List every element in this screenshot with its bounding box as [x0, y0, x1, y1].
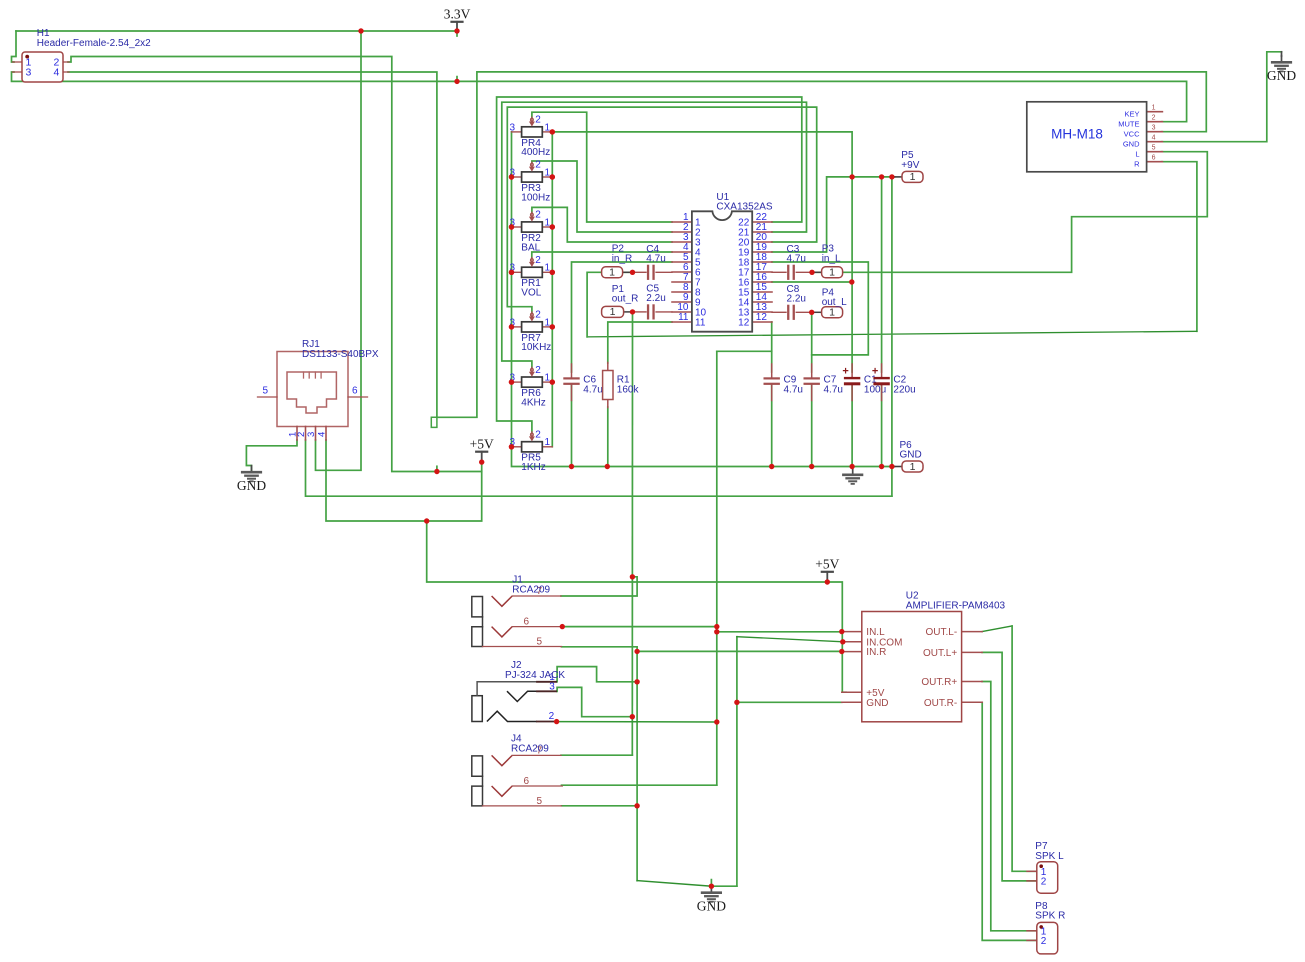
- junction at 711.4,886.2: [709, 884, 714, 889]
- svg-text:1: 1: [910, 171, 916, 183]
- wire net +5V: H1 pin2, RJ1 pin4, U2 +5V: [68, 57, 482, 472]
- svg-text:OUT.L-: OUT.L-: [926, 627, 958, 638]
- junction at 552.3,131.9: [550, 129, 555, 134]
- svg-text:in_L: in_L: [822, 253, 841, 264]
- connector J1 RCA209: [472, 597, 483, 617]
- capacitor C7 4.7u: [811, 364, 813, 378]
- junction at 457,31: [454, 28, 459, 33]
- capacitor C3 4.7u: [772, 271, 786, 273]
- svg-text:GND: GND: [900, 450, 922, 461]
- wire U1 pin19 to P5 +9V rail: [772, 177, 895, 252]
- svg-text:CXA1352AS: CXA1352AS: [716, 201, 772, 212]
- wire J1 pin6 to V3: [562, 626, 717, 628]
- junction at 716.8,722.0: [714, 719, 719, 724]
- svg-text:6: 6: [524, 776, 530, 787]
- svg-text:160k: 160k: [617, 384, 640, 395]
- svg-text:4: 4: [1152, 135, 1156, 142]
- potentiometer PR5 1KHz: [512, 446, 522, 448]
- svg-text:1: 1: [829, 307, 835, 319]
- svg-text:4: 4: [54, 67, 60, 79]
- junction at 511.5,382.1: [509, 379, 514, 384]
- wire IN.L link: [717, 631, 842, 633]
- svg-text:OUT.L+: OUT.L+: [923, 648, 957, 659]
- svg-text:2: 2: [1152, 115, 1156, 122]
- junction at 552.3,272.3: [550, 270, 555, 275]
- junction at 881.6,466.5: [879, 464, 884, 469]
- svg-text:GND: GND: [697, 898, 726, 913]
- svg-text:12: 12: [738, 318, 750, 329]
- wire GND bus at y=466.5 to P6: [512, 447, 895, 467]
- svg-text:2: 2: [535, 160, 541, 171]
- svg-text:400Hz: 400Hz: [521, 147, 550, 158]
- capacitor C4 4.7u: [633, 271, 647, 273]
- connector P2 in_R: [622, 271, 630, 273]
- wire V2b ground drop to bottom GND: [636, 651, 638, 880]
- wire U2 OUT.R+ to P8 pin1: [982, 682, 1037, 931]
- svg-text:OUT.R-: OUT.R-: [924, 698, 957, 709]
- connector J2 PJ-324 JACK: [472, 696, 482, 722]
- svg-text:4: 4: [317, 432, 328, 437]
- svg-text:VCC: VCC: [1124, 130, 1140, 139]
- junction at 632.3,716.7: [630, 714, 635, 719]
- svg-text:VOL: VOL: [521, 288, 541, 299]
- potentiometer PR6 4KHz: [512, 381, 522, 383]
- svg-text:MUTE: MUTE: [1118, 120, 1139, 129]
- svg-text:3.3V: 3.3V: [444, 7, 471, 22]
- svg-text:4KHz: 4KHz: [521, 397, 545, 408]
- ground (top right): [1281, 52, 1283, 56]
- svg-text:MH-M18: MH-M18: [1051, 127, 1103, 142]
- junction at 632.4,576.8: [630, 574, 635, 579]
- svg-text:6: 6: [352, 385, 358, 396]
- svg-text:5: 5: [262, 385, 268, 396]
- wire U1 pin16 to +9V vertical; C1 lead: [772, 281, 852, 283]
- capacitor C1 100u polarized: [851, 364, 853, 378]
- svg-text:GND: GND: [866, 698, 888, 709]
- wire U1 pin5 to C6: [572, 262, 673, 372]
- junction at 511.5,326.9: [509, 324, 514, 329]
- wire P4 node down to C7 top: [811, 312, 813, 372]
- svg-text:4.7u: 4.7u: [646, 254, 665, 265]
- svg-text:+5V: +5V: [470, 437, 494, 452]
- wire J4 pin7: [561, 754, 632, 756]
- svg-text:2: 2: [535, 310, 541, 321]
- wire net MUTE: H1 pin3 to MH-M18 pin2: [12, 72, 1187, 122]
- connector P3 in_L: [815, 271, 822, 273]
- junction at 632.5,311.9: [630, 309, 635, 314]
- capacitor C2 220u polarized: [881, 364, 883, 378]
- capacitor C9 4.7u: [771, 364, 773, 378]
- ground (RJ1): [251, 466, 253, 473]
- svg-text:2.2u: 2.2u: [787, 294, 806, 305]
- svg-text:PJ-324 JACK: PJ-324 JACK: [505, 670, 565, 681]
- potentiometer PR3 100Hz: [512, 176, 522, 178]
- wire U1 pin3 to PR2 pin2: [532, 207, 672, 242]
- svg-text:1: 1: [545, 122, 551, 133]
- header H1 Header-Female-2.54_2x2: [13, 61, 23, 63]
- wire C7 bottom to GND bus: [811, 384, 813, 467]
- svg-text:Header-Female-2.54_2x2: Header-Female-2.54_2x2: [37, 38, 151, 49]
- wire J1 pin7 to V1: [561, 577, 637, 596]
- wire J4 pin5 to V2b: [562, 805, 638, 807]
- junction at 716.8,631.8: [714, 629, 719, 634]
- svg-text:in_R: in_R: [612, 253, 633, 264]
- junction at 827.3,582.0: [825, 579, 830, 584]
- module MH-M18: [1147, 111, 1163, 113]
- svg-text:100Hz: 100Hz: [521, 192, 550, 203]
- svg-text:1: 1: [910, 461, 916, 473]
- junction at 632.5,272.3: [630, 270, 635, 275]
- junction at 552.3,382.1: [550, 379, 555, 384]
- svg-text:out_L: out_L: [822, 297, 847, 308]
- svg-text:5: 5: [537, 796, 543, 807]
- wire RJ1 pin2 ground link: [306, 440, 892, 496]
- svg-text:GND: GND: [1267, 68, 1296, 83]
- svg-text:+: +: [872, 365, 878, 377]
- svg-text:IN.R: IN.R: [866, 647, 886, 658]
- svg-text:2.2u: 2.2u: [646, 293, 665, 304]
- svg-text:SPK R: SPK R: [1035, 911, 1065, 922]
- svg-text:2: 2: [535, 430, 541, 441]
- wire U2 OUT.R- to P8 pin2: [982, 702, 1037, 940]
- wire P5 to GND bus vertical link: [891, 177, 893, 496]
- junction at 811.7,312.3: [809, 310, 814, 315]
- connector P4 out_L: [815, 311, 822, 313]
- svg-text:DS1133-S40BPX: DS1133-S40BPX: [302, 349, 379, 360]
- junction at 811.7,466.5: [809, 464, 814, 469]
- junction at 511.5,177.0: [509, 174, 514, 179]
- svg-text:11: 11: [695, 318, 706, 329]
- wire U2 OUT.L- to P7 pin1: [982, 626, 1012, 632]
- junction at 881.6,176.9: [879, 174, 884, 179]
- wire C9 node to vertical V3: [717, 350, 772, 352]
- junction at 426.7,521.0: [424, 518, 429, 523]
- connector RJ1 DS1133-S40BPX: [277, 352, 348, 427]
- connector J4 RCA209: [472, 756, 483, 776]
- svg-text:11: 11: [678, 312, 689, 323]
- wire U1 pin18 to C7 / P4 node: [772, 262, 868, 355]
- svg-text:+: +: [842, 365, 848, 377]
- wire U1 pin4 to PR1 pin2: [532, 252, 672, 258]
- junction at 852.1,176.9: [849, 174, 854, 179]
- svg-text:SPK L: SPK L: [1035, 851, 1064, 862]
- svg-text:1: 1: [545, 167, 551, 178]
- wire U1 pin21 to PR6 pin2: [502, 102, 807, 367]
- svg-text:1: 1: [610, 306, 616, 318]
- svg-text:2: 2: [535, 210, 541, 221]
- svg-text:GND: GND: [237, 478, 266, 493]
- svg-text:KEY: KEY: [1124, 110, 1139, 119]
- junction at 436.9,471.5: [434, 469, 439, 474]
- svg-text:3: 3: [26, 67, 32, 79]
- wire U1 pin12 to C9: [771, 322, 773, 372]
- junction at 771.7,466.5: [769, 464, 774, 469]
- IC U1 CXA1352AS: [672, 221, 692, 223]
- svg-text:RCA209: RCA209: [511, 743, 549, 754]
- junction at 637.1,681.8: [634, 679, 639, 684]
- wire C2 leads: [881, 177, 883, 372]
- connector P7 SPK L: [1027, 870, 1037, 872]
- svg-text:2: 2: [535, 115, 541, 126]
- potentiometer PR1 VOL: [512, 271, 522, 273]
- svg-text:+5V: +5V: [815, 557, 839, 572]
- svg-text:GND: GND: [1123, 140, 1140, 149]
- junction at 511.5,227.0: [509, 224, 514, 229]
- svg-text:1KHz: 1KHz: [521, 462, 545, 473]
- svg-text:1: 1: [545, 317, 551, 328]
- svg-text:4.7u: 4.7u: [784, 384, 803, 395]
- wire 3.3V net: H1 pin1 / RJ1 pin3: [16, 30, 457, 32]
- svg-text:2: 2: [1041, 936, 1047, 947]
- power flag +5V (left): [476, 451, 487, 453]
- junction at 571.5,466.5: [569, 464, 574, 469]
- svg-text:1: 1: [1152, 105, 1156, 112]
- wire U2 OUT.L+ to P7 pin2: [982, 652, 1037, 881]
- svg-text:3: 3: [1152, 125, 1156, 132]
- wire U1 pin2 to PR3 pin2: [532, 161, 672, 232]
- junction at 637.1,805.8: [634, 803, 639, 808]
- junction at 556.6,721.6: [554, 719, 559, 724]
- junction at 841.8,631.6: [839, 629, 844, 634]
- svg-text:2: 2: [535, 365, 541, 376]
- svg-text:220u: 220u: [893, 384, 915, 395]
- svg-text:4.7u: 4.7u: [583, 384, 602, 395]
- junction at 852.1,466.5: [849, 464, 854, 469]
- wire pots pin1 bus: [551, 132, 553, 447]
- svg-text:1: 1: [829, 267, 835, 279]
- wire loop detail at H1 pin4 route: [431, 417, 437, 427]
- svg-text:3: 3: [510, 122, 516, 133]
- junction at 607.3,466.5: [605, 464, 610, 469]
- junction at 511.5,272.3: [509, 270, 514, 275]
- svg-text:6: 6: [524, 616, 530, 627]
- svg-text:BAL: BAL: [521, 242, 540, 253]
- svg-text:out_R: out_R: [612, 294, 639, 305]
- wire J2 pin1 to V2b: [557, 667, 637, 682]
- connector P8 SPK R: [1027, 930, 1037, 932]
- capacitor C5 2.2u: [633, 311, 647, 313]
- junction at 552.3,227.0: [550, 224, 555, 229]
- junction at 736.9,702.3: [734, 700, 739, 705]
- junction at 552.3,177.0: [550, 174, 555, 179]
- svg-text:2: 2: [1041, 877, 1047, 888]
- potentiometer PR2 BAL: [512, 226, 522, 228]
- junction at 637.1,651.4: [634, 649, 639, 654]
- junction at 891.9,466.5: [889, 464, 894, 469]
- wire net GND: MH-M18 pin4 to top-right ground: [1162, 52, 1282, 142]
- svg-text:RCA209: RCA209: [512, 584, 550, 595]
- svg-text:1: 1: [545, 217, 551, 228]
- wire IN.COM diagonal and ground vertical V5: [736, 637, 738, 887]
- wire J1 pin5 / IN.R / GND branch: [562, 647, 638, 652]
- wire net L: MH-M18 pin5 to C3/P3: [812, 152, 1207, 273]
- wire vertical V3 (pin12 net) down to J4 pin6: [716, 351, 718, 785]
- wire J2 pin3 to V1: [557, 687, 632, 716]
- svg-text:1: 1: [545, 437, 551, 448]
- power flag 3.3V: [452, 21, 463, 23]
- svg-text:100u: 100u: [864, 384, 886, 395]
- svg-text:1: 1: [545, 263, 551, 274]
- potentiometer PR7 10KHz: [512, 326, 522, 328]
- connector P5 +9V: [895, 176, 903, 178]
- svg-text:6: 6: [1152, 155, 1156, 162]
- wire net R: MH-M18 pin6 diagonal to C4/P2: [1162, 162, 1197, 332]
- junction at 562.3,626.6: [560, 624, 565, 629]
- svg-text:2: 2: [549, 711, 555, 722]
- junction at 851.8,282: [849, 279, 854, 284]
- wire J2 pin2 to V3 bottom: [557, 721, 717, 723]
- wire U1 pin1 to PR4 pin2: [532, 112, 672, 222]
- svg-text:3: 3: [306, 432, 317, 437]
- svg-text:4.7u: 4.7u: [787, 254, 806, 265]
- ground (bottom centre): [710, 880, 712, 887]
- svg-text:L: L: [1135, 150, 1139, 159]
- potentiometer PR4 400Hz: [512, 131, 522, 133]
- junction at 812,272.3: [809, 270, 814, 275]
- junction at 842.8,641.8: [840, 639, 845, 644]
- power flag +5V (amplifier): [822, 571, 833, 573]
- junction at 891.9,176.9: [889, 174, 894, 179]
- connector P1 out_R: [624, 311, 630, 313]
- junction at 716.8,626.6: [714, 624, 719, 629]
- svg-text:5: 5: [1152, 145, 1156, 152]
- svg-text:+9V: +9V: [901, 160, 919, 171]
- resistor R1 160k: [607, 363, 609, 371]
- wire U1 pin11 to R1: [608, 322, 672, 363]
- svg-text:5: 5: [537, 637, 543, 648]
- wire pots pin3 bus: [511, 132, 513, 447]
- svg-text:12: 12: [756, 312, 768, 323]
- junction at 457,81.4: [454, 79, 459, 84]
- connector P6 GND: [895, 466, 903, 468]
- capacitor C8 2.2u: [772, 311, 786, 313]
- junction at 361,31: [358, 28, 363, 33]
- junction at 841.8,651.5: [839, 649, 844, 654]
- junction at 511.5,446.8: [509, 444, 514, 449]
- svg-text:1: 1: [609, 267, 615, 279]
- wire P2/C4 node down (V1) to J4 pin7: [631, 312, 633, 755]
- ground (filter bus): [852, 467, 854, 469]
- svg-text:AMPLIFIER-PAM8403: AMPLIFIER-PAM8403: [906, 600, 1006, 611]
- amplifier U2 AMPLIFIER-PAM8403: [842, 631, 862, 633]
- wire PR4 pin1 to +9V: [552, 132, 852, 177]
- junction at 552.3,326.9: [550, 324, 555, 329]
- svg-text:4.7u: 4.7u: [824, 384, 843, 395]
- svg-text:OUT.R+: OUT.R+: [921, 677, 957, 688]
- wire U1 pin20 to PR7 pin2: [507, 107, 816, 312]
- svg-text:2: 2: [535, 255, 541, 266]
- wire U1 pin22 to PR5 pin2: [497, 97, 802, 432]
- wire net VCC: H1 pin4 to MH-M18 pin3: [68, 72, 1206, 417]
- svg-text:1: 1: [545, 373, 551, 384]
- svg-text:R: R: [1134, 160, 1140, 169]
- capacitor C6 4.7u: [571, 364, 573, 378]
- svg-text:3: 3: [549, 681, 555, 692]
- wire RJ1 pin1 to GND symbol: [246, 440, 297, 472]
- svg-text:10KHz: 10KHz: [521, 342, 551, 353]
